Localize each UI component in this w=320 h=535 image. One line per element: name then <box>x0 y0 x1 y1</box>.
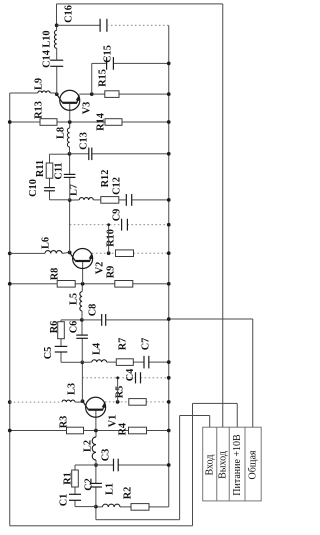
wire R1C1 upper link <box>75 465 96 470</box>
label C15 <box>103 45 114 63</box>
node filter1 lower L <box>80 360 84 364</box>
capacitor C5 <box>55 346 68 352</box>
wire L3 feed dashed <box>10 401 62 403</box>
wire collector to C14 <box>56 66 58 94</box>
resistor R9 <box>115 281 133 288</box>
capacitor C7 <box>144 356 149 369</box>
capacitor C6 <box>76 335 88 338</box>
wire C8 branch <box>82 319 169 321</box>
svg-text:L10: L10 <box>42 30 53 47</box>
node Y input filter <box>94 463 98 467</box>
node filter2 lower M2 <box>68 198 72 202</box>
resistor R12 <box>101 197 119 204</box>
node C7 ground <box>167 360 171 364</box>
capacitor C1 <box>69 494 81 500</box>
node R15 ground <box>167 92 171 96</box>
wire +10V power rail <box>9 93 11 526</box>
wire V3 base lead <box>69 103 71 122</box>
wire input pin run <box>209 416 211 428</box>
wire L8 link <box>69 122 71 154</box>
capacitor C2 <box>90 483 102 487</box>
label C4 <box>125 369 136 382</box>
resistor R7 <box>116 359 133 366</box>
label L3 <box>67 383 78 395</box>
svg-text:R5: R5 <box>114 386 125 399</box>
capacitor C11 <box>64 174 76 177</box>
label L5 <box>69 293 80 305</box>
resistor R1 <box>72 470 79 487</box>
connector label Питание +10В <box>232 434 243 496</box>
svg-text:Питание +10В: Питание +10В <box>232 434 243 496</box>
inductor L2 <box>92 437 97 460</box>
wire filter2 shunt row <box>70 199 169 201</box>
node V3 emitter junction <box>90 92 94 96</box>
wire V1 emitter dashed <box>105 401 169 403</box>
wire filter1 shunt row <box>82 361 168 363</box>
label C14 <box>42 50 53 68</box>
node C12 ground <box>167 198 171 202</box>
resistor R5 <box>129 399 146 406</box>
svg-text:Общая: Общая <box>248 450 259 479</box>
svg-text:Вход: Вход <box>204 455 215 476</box>
label L2 <box>83 440 94 452</box>
svg-text:R8: R8 <box>50 268 61 281</box>
connector label Вход <box>204 455 215 476</box>
wire L5 link <box>81 284 83 320</box>
node C15 ground <box>167 62 171 66</box>
resistor R15 <box>105 91 119 98</box>
transistor V2 <box>70 249 93 269</box>
label C3 <box>101 449 112 462</box>
svg-text:R11: R11 <box>35 160 46 177</box>
capacitor C3 <box>114 459 119 472</box>
wire V2 emitter dashed <box>92 252 169 254</box>
node V2 collector <box>68 251 72 255</box>
wire C3 branch <box>96 464 169 466</box>
capacitor C15 <box>107 57 114 70</box>
wire C9 link <box>108 225 110 254</box>
wire L10 to output node <box>56 25 58 30</box>
label C8 <box>88 304 99 317</box>
node R14 ground <box>167 120 171 124</box>
svg-text:R15: R15 <box>98 69 109 87</box>
wire V1 bias column <box>10 430 169 432</box>
label R7 <box>118 338 129 351</box>
wire output top to node <box>56 4 58 25</box>
node filter1 upper P3 <box>80 318 84 322</box>
wire V1 collector run <box>81 362 83 401</box>
capacitor C13 <box>89 148 92 161</box>
label L9 <box>34 78 45 90</box>
label R11 <box>35 160 46 177</box>
wire V2 base lead <box>82 261 84 284</box>
wire L6 to collector <box>62 252 70 253</box>
svg-text:C9: C9 <box>112 209 123 222</box>
svg-text:R2: R2 <box>123 487 134 500</box>
capacitor C14 <box>50 60 63 66</box>
svg-text:C15: C15 <box>103 45 114 63</box>
node rail tap R8 <box>8 282 12 286</box>
node R4 ground <box>167 429 171 433</box>
label R10 <box>106 229 117 247</box>
label C12 <box>112 177 123 195</box>
wire C15 link <box>91 63 93 94</box>
inductor L9 <box>38 91 50 95</box>
inductor L5 <box>80 292 84 311</box>
node C8 common ground <box>167 317 171 321</box>
wire V3 bias column <box>10 121 169 123</box>
node rail tap L6 <box>8 252 12 256</box>
wire C4 link <box>117 378 119 402</box>
transistor V1 <box>83 397 106 417</box>
label C9 <box>112 209 123 222</box>
svg-text:L9: L9 <box>34 78 45 90</box>
svg-text:C3: C3 <box>101 449 112 462</box>
wire C16 dashed to bus <box>107 24 169 26</box>
label V2 <box>95 262 106 275</box>
label C11 <box>54 162 65 179</box>
resistor R4 <box>129 427 147 434</box>
label R8 <box>50 268 61 281</box>
wire V2 bias column <box>10 283 169 285</box>
node rail tap R13 <box>8 120 12 124</box>
node R5 ground <box>167 400 171 404</box>
svg-text:L4: L4 <box>92 343 103 355</box>
svg-text:C14: C14 <box>42 50 53 68</box>
svg-text:C8: C8 <box>88 304 99 317</box>
svg-text:C1: C1 <box>59 494 70 507</box>
wire L2 link <box>95 431 97 466</box>
svg-text:L3: L3 <box>67 383 78 395</box>
svg-text:C13: C13 <box>79 132 90 150</box>
label C1 <box>59 494 70 507</box>
capacitor C16 <box>100 19 107 32</box>
svg-text:C4: C4 <box>125 369 136 382</box>
svg-text:L2: L2 <box>83 440 94 452</box>
label R2 <box>123 487 134 500</box>
wire C5 R6 loop <box>61 320 82 362</box>
node V3 collector <box>55 92 59 96</box>
wire L9 to collector <box>50 93 57 94</box>
svg-text:C5: C5 <box>43 347 54 360</box>
wire C9 line dashed <box>70 224 169 226</box>
svg-text:R14: R14 <box>96 113 107 131</box>
svg-text:R7: R7 <box>118 338 129 351</box>
wire output right riser <box>57 3 223 5</box>
node rail tap R3 <box>8 429 12 433</box>
label C10 <box>28 179 39 197</box>
resistor R14 <box>105 119 122 126</box>
wire L3 to collector <box>75 401 83 402</box>
capacitor C12 <box>126 194 131 206</box>
wire input left riser <box>96 519 180 521</box>
node V1 collector <box>81 399 85 403</box>
svg-text:R3: R3 <box>59 416 70 429</box>
resistor R3 <box>67 427 84 434</box>
resistor R6 <box>58 322 65 339</box>
label C7 <box>141 338 152 351</box>
inductor L6 <box>45 251 62 255</box>
node R10 ground <box>167 251 171 255</box>
label R13 <box>33 101 44 119</box>
node V2 base B2 <box>81 282 85 286</box>
svg-text:C12: C12 <box>112 177 123 195</box>
label R4 <box>117 423 128 436</box>
transistor V3 <box>57 90 80 110</box>
svg-text:L5: L5 <box>69 293 80 305</box>
node filter2 upper P2 <box>68 152 72 156</box>
wire power pin run <box>236 403 238 427</box>
label R9 <box>106 266 117 279</box>
wire power left riser <box>10 525 193 527</box>
node V2 emitter junction <box>107 251 111 255</box>
wire input to node <box>95 507 97 520</box>
label L1 <box>105 483 116 495</box>
resistor R13 <box>40 119 57 126</box>
label C13 <box>79 132 90 150</box>
wire L6 feed <box>10 252 45 254</box>
resistor R11 <box>46 163 53 178</box>
wire common pin run <box>252 319 254 427</box>
label R6 <box>49 321 60 334</box>
wire C10 R11 loop <box>50 154 70 200</box>
node C4 junction <box>116 376 119 379</box>
inductor L7 <box>79 198 93 202</box>
wire C15 branch <box>92 62 169 64</box>
label R14 <box>96 113 107 131</box>
label R1 <box>63 472 74 485</box>
inductor L3 <box>62 400 75 404</box>
node R9 ground <box>167 282 171 286</box>
wire C16 link <box>57 24 101 26</box>
svg-text:R12: R12 <box>100 170 111 188</box>
connector label Выход <box>218 451 229 479</box>
label R15 <box>98 69 109 87</box>
svg-text:C6: C6 <box>69 321 80 334</box>
wire common riser to bus <box>169 318 253 320</box>
svg-text:C10: C10 <box>28 179 39 197</box>
svg-text:C11: C11 <box>54 162 65 179</box>
label C16 <box>64 5 75 23</box>
wire C2 series link <box>95 465 97 507</box>
connector XS1 input/output block <box>203 427 262 501</box>
wire V2 collector run <box>69 200 71 252</box>
wire C14 to L10 <box>56 48 58 60</box>
node C3 ground <box>167 463 171 467</box>
resistor R2 <box>131 504 149 511</box>
wire input shunt leg <box>96 506 169 508</box>
wire R1C1 lower link <box>75 487 96 507</box>
wire V3 emitter run <box>79 93 169 95</box>
wire rail drop to L9 <box>10 92 38 94</box>
wire C6 link <box>81 320 83 362</box>
capacitor C9 <box>122 219 128 231</box>
node C13 ground <box>167 152 171 156</box>
resistor R8 <box>57 281 75 288</box>
wire output long run <box>222 4 224 427</box>
svg-text:R9: R9 <box>106 266 117 279</box>
svg-text:V3: V3 <box>82 102 93 115</box>
wire input vertical jog <box>180 415 210 417</box>
label C5 <box>43 347 54 360</box>
label L10 <box>42 30 53 47</box>
node V1 base Z1 <box>94 429 98 433</box>
label C2 <box>84 478 95 491</box>
wire C11 link <box>69 154 71 200</box>
connector label Общая <box>248 450 259 479</box>
wire input long run <box>179 416 181 520</box>
wire power vertical jog <box>193 402 238 404</box>
svg-text:R6: R6 <box>49 321 60 334</box>
svg-text:V1: V1 <box>108 415 119 428</box>
svg-text:C7: C7 <box>141 338 152 351</box>
svg-text:L1: L1 <box>105 483 116 495</box>
label V3 <box>82 102 93 115</box>
capacitor C10 <box>44 188 55 191</box>
svg-text:R10: R10 <box>106 229 117 247</box>
node C4 ground <box>167 376 171 380</box>
label L4 <box>92 343 103 355</box>
inductor L10 <box>54 30 58 48</box>
svg-text:Выход: Выход <box>218 451 229 479</box>
svg-text:C16: C16 <box>64 5 75 23</box>
inductor L1 <box>103 504 121 508</box>
svg-text:R13: R13 <box>33 101 44 119</box>
label L8 <box>56 127 67 139</box>
svg-text:L6: L6 <box>41 237 52 249</box>
resistor R10 <box>116 250 134 257</box>
capacitor C8 <box>102 314 106 326</box>
wire C13 branch <box>70 153 169 155</box>
node output <box>55 23 59 27</box>
wire V1 base lead <box>95 410 97 431</box>
label R12 <box>100 170 111 188</box>
wire ground bus <box>168 25 170 507</box>
label V1 <box>108 415 119 428</box>
svg-text:R4: R4 <box>117 423 128 436</box>
svg-text:R1: R1 <box>63 472 74 485</box>
inductor L4 <box>92 360 107 364</box>
node C9 ground <box>167 223 171 227</box>
node V3 base B3 <box>68 120 72 124</box>
label L7 <box>69 184 80 196</box>
node C9 junction <box>107 223 110 226</box>
wire C4 line dashed <box>82 377 168 379</box>
svg-text:V2: V2 <box>95 262 106 275</box>
wire power lower run <box>192 403 194 525</box>
label R3 <box>59 416 70 429</box>
label R5 <box>114 386 125 399</box>
inductor L8 <box>67 128 71 147</box>
node input IN <box>94 505 98 509</box>
svg-text:L8: L8 <box>56 127 67 139</box>
svg-text:C2: C2 <box>84 478 95 491</box>
node rail tap L3 <box>8 400 12 404</box>
label L6 <box>41 237 52 249</box>
label C6 <box>69 321 80 334</box>
node V1 emitter junction <box>116 400 120 404</box>
capacitor C4 <box>136 372 141 383</box>
